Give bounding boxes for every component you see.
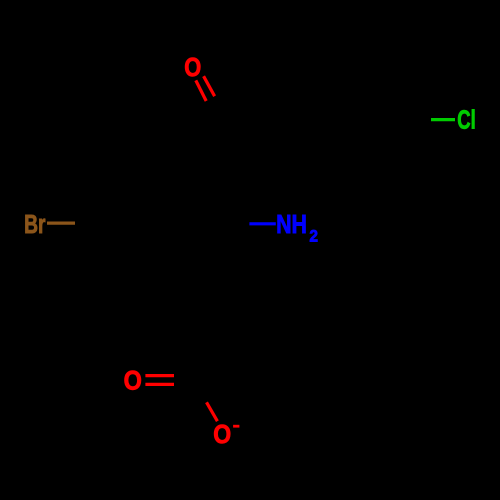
svg-text:O: O (184, 53, 201, 82)
wire C3-Ccarbonyl (193, 120, 222, 172)
wire Ccarboxylate black half of C=O (174, 376, 191, 385)
carboxylate charge minus sign (233, 425, 239, 428)
wire ring2 (285, 68, 405, 172)
svg-text:O: O (213, 421, 231, 450)
wire ring1 inner double bonds (110, 180, 216, 267)
wire ring1 (103, 172, 223, 276)
wire black half of C-NH2 (223, 222, 249, 225)
amine bond blue half (249, 222, 275, 225)
wire black halves of ketone C=O (206, 96, 224, 119)
wire CH2-Ccarboxylate (191, 328, 221, 380)
ketone C=O double bond red half, line B (204, 76, 215, 96)
carboxylate C=O double bond red half, bottom line (145, 383, 174, 386)
ketone C=O double bond red half, line A (196, 80, 206, 101)
hidden carbon skeleton (black on black): benzene ring 1 (75, 68, 431, 403)
wire black half of C-Cl (405, 118, 431, 121)
bromine bond brown half (47, 222, 75, 225)
wire black half of C-Br (75, 222, 103, 225)
carboxylate C-O single bond red half (207, 402, 218, 421)
wire C1-CH2 (193, 276, 221, 328)
chlorine bond green half (431, 118, 455, 121)
svg-text:O: O (124, 366, 142, 396)
wire Ccarbonyl-ipso ring2 (222, 118, 286, 122)
svg-text:NH: NH (276, 210, 307, 239)
svg-text:2: 2 (309, 227, 318, 246)
svg-text:Br: Br (24, 209, 45, 239)
carboxylate C=O double bond red half, top line (145, 374, 174, 377)
svg-text:Cl: Cl (457, 106, 475, 135)
wire black half of C-O(-) (191, 380, 207, 402)
